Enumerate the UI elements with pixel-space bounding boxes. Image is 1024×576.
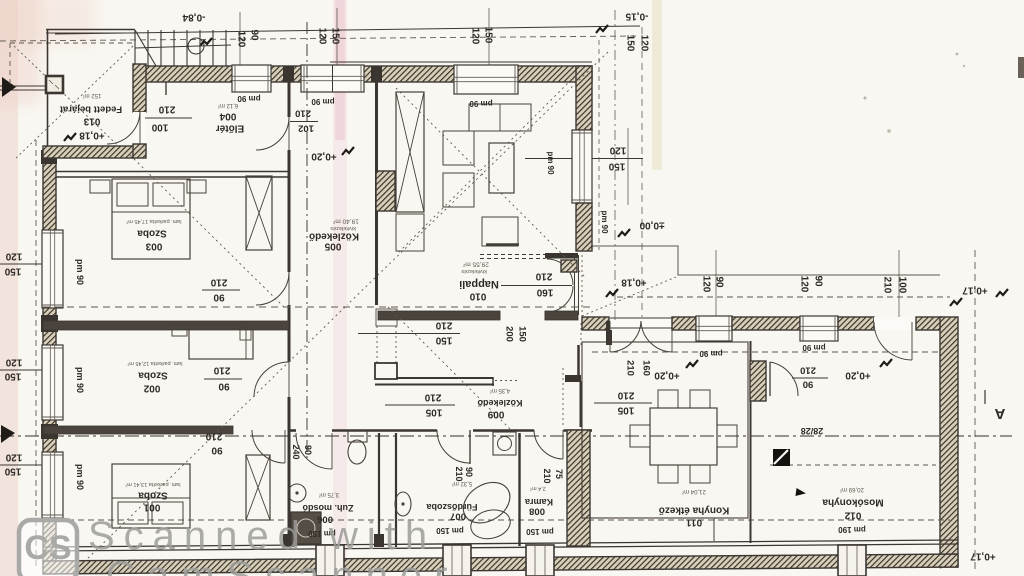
- top dimension line: [55, 26, 640, 34]
- svg-text:013: 013: [83, 116, 100, 127]
- window W3 top: [454, 65, 518, 94]
- svg-text:210: 210: [800, 365, 816, 376]
- svg-text:Konyha étkező: Konyha étkező: [659, 505, 730, 516]
- niche dotted projection: [581, 250, 583, 320]
- door dim line porch: [145, 117, 192, 119]
- svg-text:150: 150: [625, 35, 636, 52]
- chair bottom2: [690, 465, 710, 483]
- door dim line room002: [204, 378, 242, 380]
- roof diagonal SW long: [84, 307, 345, 562]
- bottom eave dashed line: [38, 519, 950, 521]
- svg-text:90: 90: [218, 381, 230, 392]
- porch dashed diagonal 2: [14, 46, 133, 160]
- niche hatched pier: [561, 260, 577, 272]
- section marker square laundry: [773, 449, 790, 466]
- svg-text:210: 210: [295, 108, 311, 119]
- door D8 kamra arc: [534, 430, 563, 459]
- laundry arrow: [795, 488, 806, 497]
- svg-text:pm 90: pm 90: [802, 343, 826, 352]
- corridor axis dash-dot: [306, 22, 308, 460]
- svg-text:pm 90: pm 90: [311, 97, 335, 106]
- svg-text:210: 210: [535, 271, 552, 282]
- dim line 009 left: [385, 404, 455, 406]
- niche jamb lines: [574, 255, 576, 315]
- french door opening: [610, 317, 672, 330]
- wall kitchen west dotted top: [580, 323, 582, 345]
- porch top edge wall: [46, 29, 135, 31]
- chair right: [717, 425, 737, 447]
- svg-text:210: 210: [882, 277, 893, 294]
- svg-text:120: 120: [470, 28, 481, 45]
- washbasin room007: [395, 492, 411, 516]
- chair bottom1: [658, 465, 678, 483]
- svg-text:pm 90: pm 90: [699, 349, 723, 358]
- kitchen-laundry wall thin: [750, 341, 752, 543]
- svg-text:120: 120: [701, 276, 712, 293]
- level mark M laundry: [880, 359, 892, 367]
- duct dotted verticals: [376, 326, 378, 364]
- svg-text:210: 210: [213, 365, 230, 376]
- svg-text:007: 007: [450, 511, 466, 522]
- svg-text:210: 210: [542, 468, 552, 483]
- wall 002/001: [43, 426, 233, 434]
- door D5 room001 arc: [252, 430, 285, 463]
- outer wall right of living: [576, 66, 592, 130]
- porch left edge wall: [47, 30, 49, 76]
- svg-text:90: 90: [249, 29, 260, 41]
- bed room001: [112, 464, 190, 528]
- svg-text:Mosókonyha: Mosókonyha: [822, 497, 884, 508]
- svg-text:001: 001: [143, 502, 160, 513]
- svg-text:20,69 m²: 20,69 m²: [840, 486, 864, 492]
- opening dim line living south: [358, 333, 460, 335]
- level mark M corridor: [342, 147, 354, 155]
- laundry dashed line: [770, 464, 936, 466]
- living east niche stub top: [545, 253, 578, 259]
- porch dashed outline top: [10, 42, 135, 44]
- svg-text:012: 012: [844, 510, 861, 521]
- south rooms top wall c: [473, 429, 534, 432]
- door D3 room003 arc: [256, 272, 289, 305]
- svg-text:pm 150: pm 150: [436, 526, 464, 535]
- window W8 kitchen: [696, 316, 732, 341]
- scan tint top-left pink smudge: [0, 0, 95, 105]
- level mark M porch: [64, 133, 76, 141]
- svg-text:210: 210: [435, 320, 452, 331]
- kitchen-laundry hatched pier: [750, 361, 766, 401]
- svg-text:Nappali: Nappali: [459, 278, 499, 290]
- wing eave dashed: [592, 351, 938, 353]
- svg-text:+0,20: +0,20: [311, 151, 337, 162]
- section A tick: [984, 390, 986, 404]
- shower tray room006: [291, 512, 321, 544]
- beam dashed lines living: [480, 254, 545, 256]
- svg-text:pm 90: pm 90: [546, 151, 555, 175]
- svg-text:+0,17: +0,17: [962, 285, 988, 296]
- roof diagonal SE: [388, 307, 512, 431]
- door D11 laundry top: [874, 322, 912, 360]
- outer wall right wing: [940, 317, 958, 567]
- svg-text:kivitelezés: kivitelezés: [330, 225, 356, 231]
- left dim tick y264: [0, 263, 56, 265]
- svg-text:102: 102: [298, 123, 314, 134]
- svg-text:2,4 m²: 2,4 m²: [530, 485, 546, 491]
- svg-text:4,35 m²: 4,35 m²: [490, 387, 510, 393]
- svg-text:010: 010: [469, 291, 486, 302]
- door D7 bath arc: [437, 430, 470, 463]
- wall 006 east: [378, 433, 380, 547]
- wing top wall east piece: [916, 317, 942, 330]
- living west hatched pier: [376, 171, 395, 211]
- outer wall bottom: [43, 554, 958, 574]
- svg-text:pm 90: pm 90: [75, 464, 85, 490]
- svg-text:210: 210: [210, 277, 227, 288]
- svg-text:120: 120: [5, 357, 22, 368]
- svg-text:28/28: 28/28: [801, 426, 824, 436]
- scan yellow crease: [652, 0, 662, 170]
- svg-text:lam. parketta 13,41 m²: lam. parketta 13,41 m²: [125, 481, 180, 487]
- south rooms top wall a: [289, 429, 296, 432]
- wardrobe living: [396, 92, 424, 212]
- porch south wall band: [43, 146, 135, 158]
- svg-text:152 m²: 152 m²: [83, 92, 102, 98]
- bed room002: [189, 324, 253, 359]
- corridor west wall mid1: [288, 150, 291, 272]
- window ref line x489: [488, 8, 490, 66]
- svg-text:120: 120: [799, 276, 810, 293]
- roof diagonal living X1: [396, 88, 586, 278]
- wing top wall mid1: [672, 317, 696, 330]
- svg-text:pm 90: pm 90: [469, 99, 493, 108]
- svg-text:Scanned with: Scanned with: [88, 514, 436, 558]
- window ref line x240: [239, 12, 241, 66]
- bottom inner wall line b: [43, 544, 958, 551]
- door D12 kitchen-laundry arc: [770, 362, 798, 396]
- door D10b french right: [641, 321, 672, 352]
- nightstand 003 left: [90, 180, 110, 193]
- left wall top block: [41, 150, 57, 164]
- top right edge mark: [1018, 57, 1024, 78]
- svg-text:+0,17: +0,17: [970, 551, 996, 562]
- vestibule west wall upper: [133, 64, 146, 112]
- svg-text:150: 150: [517, 326, 528, 342]
- scan pink vertical streak: [333, 0, 347, 576]
- junction block corridor top: [283, 66, 294, 82]
- wing dim dashed line: [617, 296, 950, 298]
- svg-text:Zuh. mosdó: Zuh. mosdó: [302, 503, 353, 513]
- svg-text:21,04 m²: 21,04 m²: [682, 488, 706, 494]
- bottom pier stub 2: [443, 545, 471, 576]
- level mark M kitchen: [606, 289, 618, 297]
- right dim dashed vertical: [974, 250, 976, 573]
- svg-text:002: 002: [143, 383, 160, 394]
- wing top wall mid3: [838, 317, 874, 330]
- svg-text:200: 200: [504, 326, 515, 342]
- door dim line vestibule: [290, 121, 318, 123]
- camscanner logo box: [19, 520, 77, 576]
- nightstand 002: [172, 324, 187, 336]
- svg-text:29,55 m²: 29,55 m²: [462, 261, 488, 268]
- svg-text:100: 100: [151, 122, 168, 133]
- door D4 room002 arc: [254, 362, 289, 397]
- section arrow top-left: [2, 77, 16, 97]
- left dim tick y465: [0, 464, 56, 466]
- living east niche stub bottom: [545, 312, 578, 317]
- svg-text:105: 105: [617, 405, 634, 416]
- wall room003 top: [56, 171, 289, 173]
- stair diagonal cut: [135, 30, 156, 66]
- window W7 right living: [572, 130, 592, 203]
- svg-text:160: 160: [536, 287, 553, 298]
- window W2 top: [301, 65, 364, 92]
- svg-text:Közlekedő: Közlekedő: [477, 398, 523, 408]
- living south wall a: [378, 311, 500, 320]
- section line A-A: [0, 435, 1012, 437]
- svg-text:120: 120: [639, 35, 650, 52]
- window W5 left: [42, 345, 63, 420]
- level mark M top stairs: [200, 38, 212, 46]
- svg-text:120: 120: [5, 251, 22, 262]
- level mark M french: [686, 360, 698, 368]
- level mark M terrace: [618, 229, 630, 237]
- svg-text:150: 150: [330, 28, 341, 45]
- svg-text:+0,18: +0,18: [621, 277, 647, 288]
- svg-text:75: 75: [554, 469, 564, 479]
- svg-text:005: 005: [324, 241, 341, 252]
- svg-text:150: 150: [483, 27, 494, 44]
- svg-text:Szoba: Szoba: [137, 228, 167, 239]
- svg-text:pm 90: pm 90: [600, 210, 609, 234]
- junction block corridor bottom: [283, 534, 294, 547]
- door D2 vestibule arc: [256, 117, 289, 150]
- wing axis dashed x642: [641, 27, 643, 317]
- svg-text:±0,00: ±0,00: [639, 220, 664, 231]
- svg-text:Kamra: Kamra: [524, 497, 553, 507]
- porch dashed outline left: [9, 43, 11, 88]
- living west wall: [375, 72, 378, 305]
- svg-text:150: 150: [435, 335, 452, 346]
- left top fence line: [0, 85, 46, 87]
- door D9a niche arc top: [547, 259, 573, 285]
- stair bar top line: [396, 377, 493, 379]
- svg-text:CS: CS: [24, 529, 71, 567]
- living south wall b: [545, 311, 578, 320]
- door D9b niche arc bottom: [547, 286, 573, 312]
- stair pier box: [375, 363, 397, 379]
- svg-text:lam. parketta 17,45 m²: lam. parketta 17,45 m²: [126, 218, 181, 224]
- chair left: [630, 425, 650, 447]
- svg-text:105: 105: [425, 407, 442, 418]
- corner bathtub room007: [456, 474, 517, 531]
- svg-text:210: 210: [454, 466, 464, 481]
- wall 007 west: [395, 433, 397, 547]
- svg-text:210: 210: [424, 392, 441, 403]
- svg-text:90: 90: [714, 276, 725, 288]
- toilet room006: [348, 431, 367, 442]
- svg-text:009: 009: [487, 409, 504, 420]
- bottom inner wall line a: [43, 540, 958, 547]
- wall east of kamra: [567, 430, 590, 546]
- svg-text:120: 120: [609, 145, 626, 156]
- svg-text:008: 008: [529, 506, 545, 517]
- wall kitchen west upper: [577, 345, 580, 381]
- left dim tick y370: [0, 369, 56, 371]
- svg-text:90: 90: [211, 445, 223, 456]
- duct dotted box: [376, 309, 397, 326]
- svg-text:-0,15: -0,15: [625, 11, 648, 22]
- scan tint left edge strip: [0, 0, 18, 576]
- scan speck right top: [956, 53, 959, 56]
- stair rail line: [135, 45, 231, 48]
- level mark M wing right: [950, 298, 962, 306]
- door D1 porch arc: [107, 111, 140, 144]
- outer wall top main: [135, 66, 592, 82]
- section arrow left: [1, 425, 15, 443]
- svg-text:kivitelezés: kivitelezés: [461, 268, 487, 274]
- svg-text:90: 90: [813, 275, 824, 287]
- svg-text:150: 150: [4, 466, 21, 477]
- svg-text:210: 210: [625, 360, 636, 376]
- top wall face line: [330, 61, 592, 63]
- sofa left pair: [443, 131, 474, 165]
- wing step outline: [582, 246, 940, 275]
- french door jamb leg: [606, 321, 612, 345]
- svg-text:+0,18: +0,18: [79, 130, 105, 141]
- junction block 006 bottom: [374, 534, 384, 547]
- washer room007: [493, 432, 516, 455]
- svg-text:19,40 m²: 19,40 m²: [332, 218, 358, 225]
- outer wall left: [43, 150, 56, 565]
- svg-text:3,75 m²: 3,75 m²: [319, 491, 339, 497]
- svg-text:pm 150: pm 150: [526, 527, 554, 536]
- svg-text:pm 190: pm 190: [838, 525, 866, 534]
- top dashed eave line: [0, 36, 640, 41]
- svg-text:-0,84: -0,84: [182, 12, 205, 23]
- svg-text:pm 90: pm 90: [75, 367, 85, 393]
- door dim line living: [501, 285, 572, 287]
- door D6 shower arc: [296, 433, 332, 469]
- coffee table living: [489, 143, 514, 193]
- ref line x628: [627, 128, 629, 205]
- left wall joint block 2: [41, 424, 58, 439]
- porch dashed diagonal 1: [14, 46, 133, 160]
- wardrobe room003: [246, 176, 272, 250]
- window W4 left: [42, 230, 63, 308]
- roof diagonal NW: [130, 155, 284, 307]
- wall 003/002: [43, 321, 289, 330]
- left wall joint block 1: [41, 315, 58, 332]
- scan speck 2: [887, 129, 891, 133]
- door dim line room003: [202, 289, 240, 291]
- svg-text:CamScanner: CamScanner: [106, 554, 459, 576]
- wall kitchen west lower: [580, 381, 583, 427]
- stair bar dotted ext: [495, 380, 518, 382]
- washbasin room006: [288, 484, 306, 502]
- svg-text:120: 120: [236, 31, 247, 48]
- svg-text:A: A: [994, 405, 1005, 422]
- dotted x563: [562, 368, 564, 425]
- bottom pier stub 4: [838, 545, 866, 576]
- wing top wall mid2: [732, 317, 800, 330]
- corridor west wall lower: [288, 397, 291, 546]
- south rooms top wall d: [564, 429, 593, 432]
- svg-text:Fedett bejárat: Fedett bejárat: [59, 104, 122, 115]
- svg-text:Szoba: Szoba: [138, 370, 168, 381]
- roof diagonal living X2: [398, 68, 583, 253]
- living dashed x599: [598, 40, 600, 250]
- svg-text:Előtér: Előtér: [216, 123, 244, 134]
- svg-text:Fürdőszoba: Fürdőszoba: [426, 502, 478, 512]
- wall 007/008: [518, 433, 520, 546]
- roof ridge dashed: [43, 306, 592, 308]
- junction block living top: [371, 66, 382, 82]
- svg-text:210: 210: [158, 104, 175, 115]
- corridor west wall upper: [288, 66, 291, 117]
- dim line 009 right: [594, 402, 652, 404]
- svg-text:90: 90: [803, 379, 814, 390]
- svg-text:Közlekedő: Közlekedő: [309, 231, 359, 242]
- bed room003: [112, 179, 190, 259]
- armchair living: [482, 217, 518, 246]
- svg-text:210: 210: [617, 390, 634, 401]
- svg-text:pm 90: pm 90: [237, 94, 261, 103]
- bottom pier stub 3: [526, 545, 554, 576]
- sofa back pair: [469, 104, 531, 131]
- svg-text:160: 160: [641, 360, 652, 376]
- door D10a french left: [610, 321, 641, 352]
- ref line x899: [898, 250, 900, 322]
- svg-text:150: 150: [608, 161, 625, 172]
- svg-text:100: 100: [897, 277, 908, 294]
- svg-text:011: 011: [685, 517, 702, 528]
- wardrobe room001: [246, 455, 270, 520]
- window W9 laundry: [800, 316, 838, 341]
- dash-dot x615: [614, 10, 616, 320]
- svg-text:240: 240: [291, 444, 301, 459]
- outer wall right living mid: [576, 203, 592, 251]
- svg-text:90: 90: [303, 445, 313, 455]
- cabinet living: [396, 214, 424, 251]
- nightstand 003 right: [187, 180, 206, 193]
- svg-text:004: 004: [219, 111, 236, 122]
- chair top1: [658, 390, 678, 408]
- vestibule west wall lower: [133, 144, 146, 158]
- svg-text:lam. parketta 12,45 m²: lam. parketta 12,45 m²: [127, 360, 182, 366]
- svg-text:+0,20: +0,20: [845, 370, 871, 381]
- svg-text:150: 150: [4, 266, 21, 277]
- ref line x716: [715, 250, 717, 317]
- wing top wall west piece: [582, 317, 609, 330]
- stair bar bottom line: [375, 384, 494, 386]
- stair treads: [134, 30, 136, 66]
- svg-text:003: 003: [145, 241, 162, 252]
- svg-text:90: 90: [464, 467, 474, 477]
- window ref line x337: [336, 8, 338, 66]
- window W6 left: [42, 452, 63, 518]
- tv bench living: [486, 243, 519, 246]
- left dashed eave line: [35, 140, 37, 568]
- porch door opening: [133, 112, 146, 144]
- kitchen platform outline: [582, 342, 748, 518]
- south rooms top wall b: [332, 429, 437, 432]
- roof diagonal living long: [347, 52, 608, 305]
- chair top2: [690, 390, 710, 408]
- svg-text:210: 210: [205, 431, 222, 442]
- level mark M top right: [596, 25, 608, 33]
- svg-text:120: 120: [5, 452, 22, 463]
- dining table: [650, 408, 717, 465]
- wall kitchen west stub: [565, 375, 581, 382]
